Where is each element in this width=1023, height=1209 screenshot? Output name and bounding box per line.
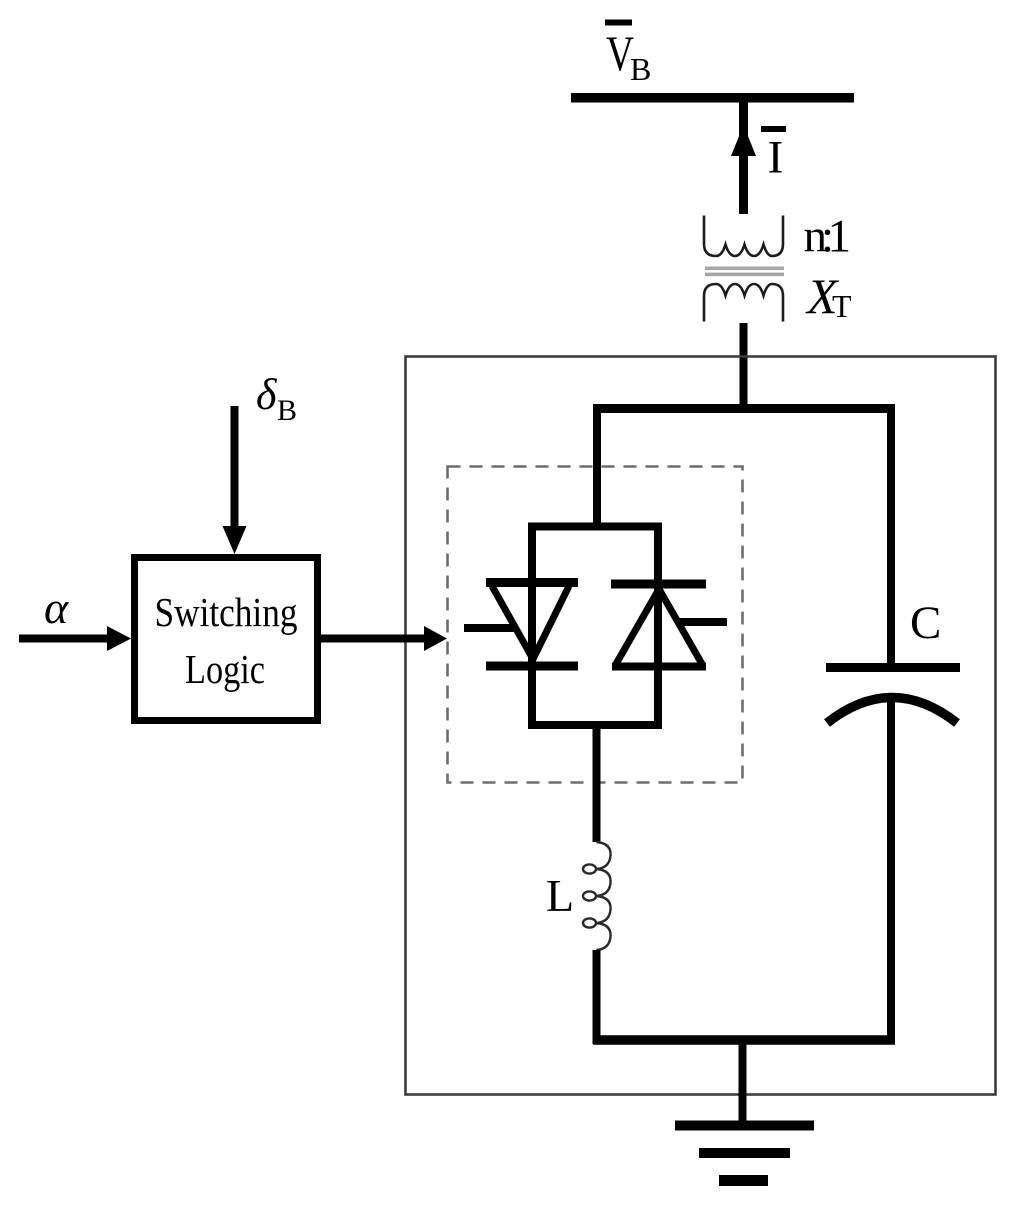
thyristor valve block rectangle [532, 527, 658, 726]
svg-text:Logic: Logic [185, 646, 265, 692]
thyristor Q2 anode base bar [612, 663, 706, 671]
wire: inductor to bottom bus [593, 950, 601, 1044]
wire: current feed from transformer to bus [739, 102, 748, 214]
thyristor Q2 triangle sides [616, 589, 702, 664]
thyristor Q2 gate lead [677, 618, 727, 626]
svg-text:B: B [277, 394, 297, 427]
svg-text:Switching: Switching [155, 589, 298, 635]
ground symbol [675, 1126, 814, 1181]
label delta_B (input) [256, 370, 297, 427]
thyristor Q1 cathode bar [486, 662, 578, 671]
wire: bottom bus to ground [739, 1036, 747, 1122]
svg-text:L: L [546, 870, 574, 921]
svg-text:α: α [44, 582, 69, 633]
label n:1 (turns ratio) [804, 211, 852, 263]
node: bottom bus inside box [593, 1035, 895, 1045]
wire: capacitor to bottom bus [887, 697, 895, 1044]
svg-text:δ: δ [256, 370, 278, 419]
wire: transformer secondary to SVC box [740, 323, 748, 411]
dashed box around thyristor valve [448, 467, 743, 783]
arrowhead alpha input [107, 626, 131, 651]
label X_T (transformer reactance) [805, 268, 852, 324]
thyristor Q1 triangle sides [492, 586, 569, 659]
svg-text:C: C [910, 597, 941, 649]
label V_B (bus voltage) [605, 20, 651, 88]
wire: left branch down to thyristor block [593, 404, 601, 528]
capacitor C top plate [826, 663, 960, 672]
node: top bus inside box [593, 404, 895, 413]
wire: alpha input arrow [19, 635, 110, 643]
thyristor Q1 gate lead [464, 624, 514, 632]
wire: right branch down to capacitor [887, 404, 895, 667]
thyristor Q2 (right, conducting up): cathode bar [611, 580, 706, 589]
arrowhead of current I [731, 125, 756, 156]
transformer core lines [705, 267, 784, 271]
bus bar V_B [571, 93, 854, 103]
wire: thyristor block down to inductor [593, 721, 601, 842]
arrowhead delta input [223, 526, 247, 554]
wire: switching logic output arrow to valve [321, 635, 426, 643]
switching logic label [155, 589, 298, 692]
svg-text:1: 1 [828, 211, 852, 263]
label I (current, with overbar) [761, 126, 786, 184]
SVC enclosure box [406, 357, 996, 1095]
arrowhead output [424, 626, 447, 651]
capacitor C curved bottom plate [827, 698, 957, 724]
wire: delta input arrow [231, 406, 239, 529]
svg-text:I: I [768, 132, 784, 184]
svg-text:T: T [832, 288, 852, 324]
thyristor Q1 (left, conducting down): anode bar [486, 578, 578, 587]
transformer T secondary winding [704, 284, 783, 322]
transformer T primary winding [704, 216, 783, 257]
switching logic block U1 [135, 558, 318, 721]
inductor L coil [583, 842, 611, 950]
svg-text:B: B [630, 51, 651, 87]
